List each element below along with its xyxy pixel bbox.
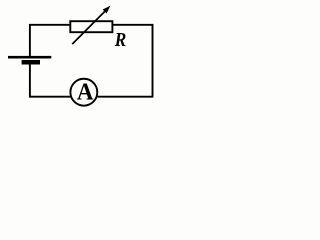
battery cell long positive plate xyxy=(8,56,51,59)
svg-text:A: A xyxy=(77,79,94,106)
ammeter circle xyxy=(70,79,97,106)
resistor R body xyxy=(70,21,112,32)
wire right segment (resistor to ammeter via right side) xyxy=(98,25,153,97)
svg-text:R: R xyxy=(114,29,126,51)
wire top-left segment (corner to resistor) xyxy=(30,25,70,56)
background xyxy=(0,0,160,118)
wire bottom-left segment (battery to ammeter) xyxy=(30,64,71,96)
variable resistor arrow shaft xyxy=(72,11,105,44)
variable resistor arrowhead xyxy=(103,6,111,14)
battery cell short thick negative plate xyxy=(22,60,40,65)
